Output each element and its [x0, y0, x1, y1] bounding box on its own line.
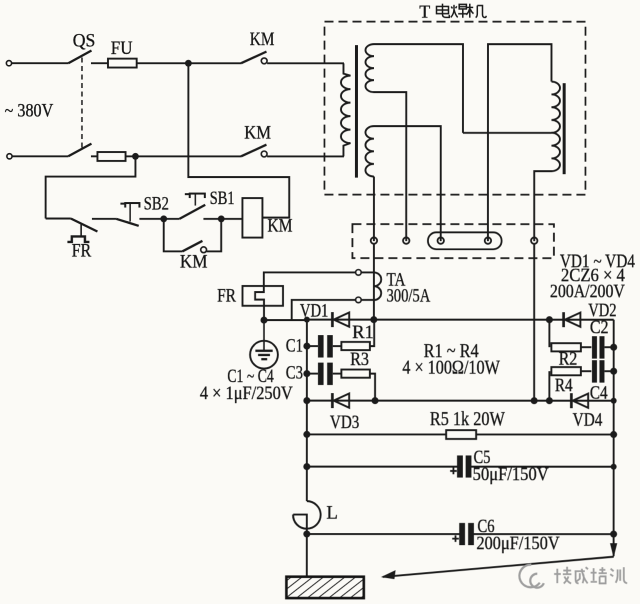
- svg-text:SB2: SB2: [144, 193, 169, 214]
- svg-text:QS: QS: [73, 30, 96, 51]
- svg-text:T: T: [419, 1, 430, 21]
- svg-text:C4: C4: [590, 383, 608, 404]
- svg-text:KM: KM: [250, 29, 275, 50]
- svg-text:KM: KM: [244, 123, 271, 144]
- svg-text:C1: C1: [286, 335, 303, 356]
- svg-text:KM: KM: [267, 215, 292, 236]
- svg-text:~ 380V: ~ 380V: [5, 100, 54, 121]
- svg-text:200μF/150V: 200μF/150V: [476, 533, 559, 554]
- svg-text:300/5A: 300/5A: [386, 286, 430, 307]
- svg-text:VD4: VD4: [573, 409, 603, 430]
- svg-text:200A/200V: 200A/200V: [550, 281, 625, 302]
- svg-text:FR: FR: [72, 241, 92, 262]
- svg-text:VD3: VD3: [330, 412, 360, 433]
- svg-text:R1: R1: [352, 322, 374, 343]
- svg-text:KM: KM: [180, 252, 208, 273]
- svg-text:FU: FU: [111, 38, 133, 59]
- svg-text:C2: C2: [590, 317, 609, 338]
- svg-text:R5 1k 20W: R5 1k 20W: [430, 408, 505, 430]
- svg-text:SB1: SB1: [210, 188, 235, 209]
- svg-text:4 × 1μF/250V: 4 × 1μF/250V: [200, 383, 293, 404]
- svg-text:R3: R3: [350, 349, 369, 370]
- svg-text:R4: R4: [555, 375, 573, 396]
- svg-text:C3: C3: [286, 363, 303, 384]
- svg-text:R2: R2: [559, 349, 578, 370]
- svg-text:L: L: [326, 503, 338, 524]
- svg-text:50μF/150V: 50μF/150V: [473, 464, 549, 485]
- svg-text:FR: FR: [217, 285, 236, 306]
- svg-text:VD1: VD1: [300, 301, 329, 322]
- svg-text:4 × 100Ω/10W: 4 × 100Ω/10W: [402, 356, 500, 378]
